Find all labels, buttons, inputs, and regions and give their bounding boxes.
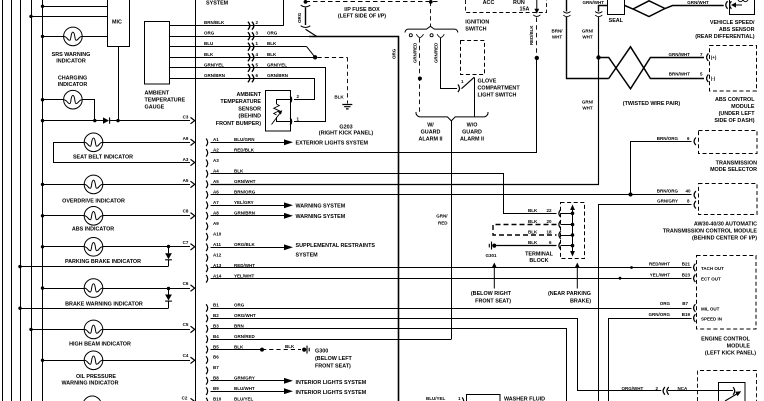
svg-text:B3: B3 (213, 324, 219, 329)
wire A4 BLK to terminal block (211, 174, 557, 214)
pin A10 (206, 233, 208, 241)
sensor symbol inside NCA box (719, 383, 746, 401)
svg-text:BLK: BLK (234, 169, 244, 174)
svg-text:WHT: WHT (582, 105, 592, 110)
wire ORG main feed (thick) (309, 37, 399, 401)
svg-text:A7: A7 (213, 200, 219, 205)
svg-text:GRN/GRY: GRN/GRY (234, 376, 255, 381)
svg-text:SIDE OF DASH): SIDE OF DASH) (714, 118, 754, 124)
connector GRN/RED 2 (437, 34, 444, 37)
svg-text:C4: C4 (183, 353, 189, 358)
svg-text:ORG/WHT: ORG/WHT (622, 386, 644, 391)
connector GRN/RED 1 (416, 34, 423, 37)
svg-text:BLOCK: BLOCK (529, 258, 548, 264)
ignition switch box (466, 0, 547, 13)
svg-text:TERMINAL: TERMINAL (525, 252, 554, 258)
wire BLK 20 dashed loop (493, 225, 557, 236)
svg-text:A4: A4 (213, 169, 219, 174)
svg-text:G301: G301 (485, 253, 497, 258)
svg-text:BRN/BLK: BRN/BLK (204, 20, 225, 25)
pin BRN/ORG 40 (694, 191, 696, 199)
bracket alternatives merge (416, 112, 488, 121)
svg-text:TACH OUT: TACH OUT (701, 266, 724, 271)
switch washer fluid level (467, 395, 501, 401)
wire B5 BLK to G300 (211, 349, 263, 351)
svg-text:YEL/GRY: YEL/GRY (234, 200, 254, 205)
svg-text:ORG/BLK: ORG/BLK (234, 242, 255, 247)
pin A11 (206, 244, 208, 252)
svg-text:I/P FUSE BOX: I/P FUSE BOX (344, 7, 380, 13)
pin A12 (206, 254, 208, 262)
svg-text:A3: A3 (213, 158, 219, 163)
svg-text:MODE SELECTOR: MODE SELECTOR (710, 167, 757, 173)
svg-text:TEMPERATURE: TEMPERATURE (145, 98, 186, 104)
svg-text:ORG: ORG (267, 31, 278, 36)
svg-text:20: 20 (547, 219, 553, 224)
svg-text:B10: B10 (213, 396, 222, 401)
lamp bottom indicator (clipped) (83, 396, 102, 401)
svg-text:SYSTEM: SYSTEM (206, 0, 229, 6)
svg-text:ORG: ORG (660, 301, 671, 306)
svg-text:A2: A2 (213, 148, 219, 153)
fuse terminal dot (304, 0, 308, 4)
svg-text:RED: RED (438, 220, 448, 225)
svg-text:HIGH BEAM INDICATOR: HIGH BEAM INDICATOR (69, 342, 131, 348)
pin B7 (206, 367, 208, 375)
svg-text:AMBIENT: AMBIENT (145, 91, 170, 97)
svg-text:ALARM II: ALARM II (419, 137, 443, 143)
svg-text:BRN/ORG: BRN/ORG (234, 190, 256, 195)
pin B3 (206, 325, 208, 333)
svg-text:BRN/: BRN/ (552, 28, 564, 33)
svg-text:A9: A9 (183, 136, 189, 141)
wire A8 GRN/BRN warning system (211, 215, 285, 217)
svg-text:C6: C6 (183, 281, 189, 286)
wire B8 GRN/GRY interior lights (211, 380, 285, 382)
wire bus3 to D2 (20, 266, 168, 268)
wire MIC output to C3 (118, 47, 120, 121)
svg-text:B9: B9 (213, 386, 219, 391)
svg-text:INDICATOR: INDICATOR (56, 59, 86, 65)
pin B4 (206, 335, 208, 343)
svg-text:A1: A1 (213, 137, 219, 142)
svg-text:PARKING BRAKE INDICATOR: PARKING BRAKE INDICATOR (65, 259, 141, 265)
switch blade fuse to ORG feed (306, 29, 318, 36)
pin A4 (206, 170, 208, 178)
pin A7 (206, 202, 208, 210)
wire bus-2 (11, 0, 13, 401)
svg-text:FRONT BUMPER): FRONT BUMPER) (216, 121, 261, 127)
svg-text:SEAT BELT INDICATOR: SEAT BELT INDICATOR (73, 154, 133, 160)
svg-text:WARNING INDICATOR: WARNING INDICATOR (62, 380, 119, 386)
svg-text:BRAKE WARNING INDICATOR: BRAKE WARNING INDICATOR (65, 302, 143, 308)
wire B3 BRN (211, 329, 567, 401)
svg-text:YEL/WHT: YEL/WHT (650, 272, 670, 277)
connector RED/BLK (533, 15, 540, 17)
switch blade BLU to BLK splice (307, 47, 315, 58)
module NCA (dashed) (698, 371, 757, 401)
svg-text:B19: B19 (682, 312, 691, 317)
svg-text:RED/WHT: RED/WHT (649, 262, 670, 267)
pin A5 (206, 181, 208, 189)
I/P fuse box bus (dashed) (306, 1, 441, 3)
svg-text:GRN/RED: GRN/RED (433, 43, 438, 63)
svg-text:ABS CONTROL: ABS CONTROL (715, 97, 755, 103)
ground G300 (302, 348, 306, 352)
svg-text:C2: C2 (182, 395, 188, 400)
svg-text:BLU/YEL: BLU/YEL (426, 396, 446, 401)
svg-text:GRN/YEL: GRN/YEL (267, 62, 287, 67)
wire MIC feed 2 (31, 16, 108, 18)
svg-text:(BEHIND: (BEHIND (239, 114, 262, 120)
svg-text:ORG: ORG (297, 12, 302, 23)
pin B1 (206, 304, 208, 312)
svg-text:WASHER FLUID: WASHER FLUID (504, 397, 545, 401)
svg-text:INTERIOR LIGHTS SYSTEM: INTERIOR LIGHTS SYSTEM (296, 390, 367, 396)
svg-text:BLU/YEL: BLU/YEL (234, 396, 254, 401)
lamp ABS indicator (43, 215, 85, 217)
wire RED/BLK dashed (536, 18, 538, 58)
svg-text:BLU: BLU (204, 41, 213, 46)
svg-text:WARNING SYSTEM: WARNING SYSTEM (296, 204, 346, 210)
wire GRN/ORG B19 (609, 319, 692, 401)
svg-text:BLK: BLK (528, 230, 538, 235)
terminal block box (561, 203, 585, 259)
svg-text:GRN/: GRN/ (436, 213, 448, 218)
svg-text:GUARD: GUARD (421, 130, 441, 136)
pin A9 (206, 223, 208, 231)
svg-text:YEL/WHT: YEL/WHT (234, 274, 254, 279)
wire GRN/RED merged drop (451, 121, 453, 339)
svg-text:15A: 15A (520, 6, 530, 12)
svg-text:(REAR DIFFERENTIAL): (REAR DIFFERENTIAL) (695, 34, 754, 40)
svg-text:(LEFT SIDE OF I/P): (LEFT SIDE OF I/P) (338, 14, 386, 20)
pin A8 (206, 212, 208, 220)
wire B9 BLU/WHT interior lights (211, 391, 285, 393)
instrument cluster right edge (195, 0, 197, 401)
svg-text:EXTERIOR LIGHTS SYSTEM: EXTERIOR LIGHTS SYSTEM (296, 141, 369, 147)
svg-text:BLK: BLK (234, 344, 244, 349)
pin A6 (206, 191, 208, 199)
svg-text:GRN/RED: GRN/RED (234, 334, 256, 339)
pin B8 (206, 377, 208, 385)
twisted wire pair (top) (625, 6, 724, 17)
svg-text:RED/BLK: RED/BLK (234, 148, 255, 153)
lamp SRS warning indicator (43, 36, 64, 38)
svg-text:SYSTEM: SYSTEM (296, 252, 319, 258)
ground G203 (342, 105, 352, 109)
diode D2 parking brake (167, 245, 170, 248)
svg-text:BRN/ORG: BRN/ORG (657, 188, 679, 193)
svg-text:GUARD: GUARD (462, 130, 482, 136)
pin B6 (206, 356, 208, 364)
wire BRN/ORG 6 (631, 142, 692, 195)
svg-text:22: 22 (547, 208, 553, 213)
svg-text:GRN/WHT: GRN/WHT (687, 0, 709, 5)
wire B2 ORG/WHT (211, 319, 662, 391)
svg-text:ABS INDICATOR: ABS INDICATOR (72, 227, 114, 233)
svg-text:GAUGE: GAUGE (145, 105, 165, 111)
svg-text:ORG: ORG (234, 303, 245, 308)
svg-text:(BEHIND CENTER OF I/P): (BEHIND CENTER OF I/P) (692, 236, 757, 242)
svg-text:BLK: BLK (267, 52, 277, 57)
svg-text:SEAL: SEAL (609, 18, 624, 24)
svg-text:ORG: ORG (204, 31, 215, 36)
seal (608, 0, 625, 15)
svg-text:A3: A3 (183, 157, 189, 162)
svg-text:BLK: BLK (285, 344, 295, 349)
svg-text:B7: B7 (682, 301, 688, 306)
svg-text:ORG: ORG (392, 48, 397, 59)
splice on YEL/WHT (619, 277, 622, 280)
svg-text:MODULE: MODULE (727, 344, 751, 350)
svg-text:A10: A10 (213, 232, 222, 237)
svg-text:CHARGING: CHARGING (58, 76, 87, 82)
lamp oil pressure warning indicator (43, 360, 85, 362)
diode D3 brake warning (167, 287, 170, 290)
pin B21 TACH OUT (694, 264, 696, 272)
arrow to G301 location note (493, 267, 495, 289)
svg-text:BRAKE): BRAKE) (570, 298, 591, 304)
sensor pin 2 (290, 96, 292, 104)
svg-text:(LEFT KICK PANEL): (LEFT KICK PANEL) (705, 351, 756, 357)
splice RED/BLK (535, 56, 539, 60)
pin B19 SPEED IN (694, 314, 696, 322)
svg-text:A6: A6 (213, 190, 219, 195)
svg-text:(RIGHT KICK PANEL): (RIGHT KICK PANEL) (319, 131, 374, 137)
ground G301 (492, 244, 496, 248)
splice on RED/WHT (630, 266, 633, 269)
svg-text:A11: A11 (213, 242, 222, 247)
svg-text:MODULE: MODULE (731, 104, 755, 110)
svg-text:B1: B1 (213, 303, 219, 308)
svg-text:GRN/YEL: GRN/YEL (204, 62, 224, 67)
svg-text:ENGINE CONTROL: ENGINE CONTROL (701, 337, 751, 343)
svg-text:B5: B5 (213, 344, 219, 349)
pin BLK 18 (559, 231, 561, 239)
lamp seat belt indicator (54, 143, 191, 163)
pin B5 (206, 346, 208, 354)
svg-text:C5: C5 (183, 322, 189, 327)
pin A13 (206, 265, 208, 273)
wire bus3 to D3 (20, 308, 168, 310)
svg-text:INDICATOR: INDICATOR (58, 82, 88, 88)
arrow to terminal block location note (576, 267, 578, 289)
svg-text:G300: G300 (315, 349, 328, 355)
module ECM (697, 256, 757, 330)
wire B4 GRN/RED (211, 339, 452, 341)
wire BLK dashed to G203 (318, 57, 348, 59)
svg-text:GRN/WHT: GRN/WHT (234, 179, 256, 184)
wire GRN/WHT vertical bus (599, 6, 608, 12)
svg-text:ORG/WHT: ORG/WHT (234, 313, 256, 318)
svg-text:INTERIOR LIGHTS SYSTEM: INTERIOR LIGHTS SYSTEM (296, 380, 367, 386)
pin B23 ECT OUT (694, 274, 696, 282)
svg-text:RED/BLK: RED/BLK (529, 25, 534, 45)
wire A1 BLU/GRN exterior lights (211, 142, 285, 144)
wire BLK 6 from G301 (497, 245, 557, 247)
splice GRN/WHT to twisted pair (596, 55, 600, 59)
svg-text:W/O: W/O (467, 123, 478, 129)
svg-text:LIGHT SWITCH: LIGHT SWITCH (478, 93, 517, 99)
svg-text:BLK: BLK (528, 240, 538, 245)
svg-text:ECT OUT: ECT OUT (701, 277, 721, 282)
sensor ambient temperature (266, 91, 291, 132)
svg-text:SWITCH: SWITCH (465, 26, 486, 32)
svg-text:(NEAR PARKING: (NEAR PARKING (548, 291, 591, 297)
svg-text:BLK: BLK (204, 52, 214, 57)
pin A2 (206, 149, 208, 157)
svg-text:40: 40 (685, 188, 691, 193)
svg-text:(UNDER LEFT: (UNDER LEFT (719, 111, 756, 117)
svg-text:TRANSMISSION: TRANSMISSION (716, 160, 757, 166)
pin BLK 20 (559, 221, 561, 229)
svg-text:GRN/: GRN/ (582, 28, 594, 33)
lamp overdrive indicator (43, 184, 85, 186)
selector transmission mode (694, 138, 696, 146)
svg-text:WHT: WHT (582, 34, 592, 39)
svg-text:MIC: MIC (112, 20, 122, 26)
svg-text:RUN: RUN (513, 0, 525, 6)
svg-text:B2: B2 (213, 313, 219, 318)
svg-text:WARNING SYSTEM: WARNING SYSTEM (296, 214, 346, 220)
svg-text:AW30-40/30 AUTOMATIC: AW30-40/30 AUTOMATIC (694, 222, 757, 228)
svg-text:GRN/BRN: GRN/BRN (267, 73, 288, 78)
svg-text:B8: B8 (213, 376, 219, 381)
svg-text:OVERDRIVE INDICATOR: OVERDRIVE INDICATOR (62, 199, 125, 205)
glove compartment light switch (461, 41, 485, 75)
svg-text:GRN/RED: GRN/RED (413, 43, 418, 63)
svg-text:18: 18 (547, 230, 553, 235)
pin BLK 6 (559, 242, 561, 250)
splice S/BLK (313, 55, 317, 59)
ABS control module (707, 53, 709, 61)
svg-text:SPEED IN: SPEED IN (701, 317, 722, 322)
svg-text:B4: B4 (213, 334, 219, 339)
svg-text:C7: C7 (183, 240, 189, 245)
pin BLK 22 (559, 210, 561, 218)
svg-text:GRN/WHT: GRN/WHT (583, 0, 605, 5)
svg-text:GRN/BRN: GRN/BRN (204, 73, 225, 78)
wire bus-1 (2, 0, 4, 401)
svg-text:GLOVE: GLOVE (478, 79, 497, 85)
diode D1 charging (43, 120, 104, 122)
wire GRN/RED dashed (w/ guard alarm) (419, 38, 421, 112)
svg-text:A5: A5 (213, 179, 219, 184)
connector vehicle speed sensor (726, 1, 728, 9)
svg-text:GRN/: GRN/ (582, 99, 594, 104)
svg-text:B7: B7 (213, 365, 219, 370)
pin B10 (206, 398, 208, 401)
svg-text:BLK: BLK (528, 208, 538, 213)
svg-text:A12: A12 (213, 253, 222, 258)
svg-text:BLU/WHT: BLU/WHT (234, 386, 255, 391)
wire GRN/GRY 8 (599, 205, 692, 401)
svg-text:GRN/GRY: GRN/GRY (657, 199, 678, 204)
brace alternative wiring (405, 26, 458, 32)
svg-text:A9: A9 (213, 221, 219, 226)
svg-text:AMBIENT: AMBIENT (236, 92, 261, 98)
svg-text:GRN/ORG: GRN/ORG (648, 312, 670, 317)
wire B1 ORG to ECM B7 (211, 308, 692, 310)
svg-text:TEMPERATURE: TEMPERATURE (220, 99, 261, 105)
pin A1 (206, 139, 208, 147)
module AW30-40/30 TCM (699, 184, 758, 215)
svg-text:FRONT SEAT): FRONT SEAT) (315, 364, 351, 370)
wire dashed fusebox drop to brace (430, 2, 432, 26)
wire BRN/WHT vertical (566, 0, 568, 12)
wire A13 RED/WHT to ECM B21 (211, 267, 692, 269)
pin A14 (206, 275, 208, 283)
lamp high beam indicator (31, 329, 84, 331)
pin B9 (206, 387, 208, 395)
lamp brake warning indicator (43, 288, 85, 290)
sensor vehicle speed/ABS (730, 0, 755, 15)
svg-text:(BELOW LEFT: (BELOW LEFT (315, 356, 353, 362)
svg-text:BLU/GRN: BLU/GRN (234, 137, 255, 142)
twisted wire pair (to ABS module) (599, 58, 705, 89)
svg-text:WHT: WHT (552, 34, 562, 39)
sensor pin 1 (290, 118, 292, 126)
pin B2 (206, 315, 208, 323)
wire A14 YEL/WHT to ECM B23 (211, 278, 692, 280)
svg-text:A5: A5 (183, 178, 189, 183)
svg-text:BRN/WHT: BRN/WHT (669, 71, 690, 76)
wire RED/BLK to cluster A2 (211, 58, 537, 153)
wire ORG fuse drop (301, 5, 311, 7)
svg-text:W/: W/ (427, 123, 434, 129)
gauge ambient temperature (145, 22, 170, 85)
svg-text:A8: A8 (213, 211, 219, 216)
svg-text:SUPPLEMENTAL RESTRAINTS: SUPPLEMENTAL RESTRAINTS (296, 243, 376, 249)
svg-text:B6: B6 (213, 355, 219, 360)
svg-text:VEHICLE SPEED/: VEHICLE SPEED/ (710, 20, 755, 26)
wire A11 ORG/BLK SRS (211, 247, 285, 249)
wire bus-5 (42, 0, 44, 401)
pin B7 MIL OUT (694, 304, 696, 312)
svg-text:BRN/ORG: BRN/ORG (657, 136, 679, 141)
svg-text:C3: C3 (183, 115, 189, 120)
svg-text:B21: B21 (682, 262, 691, 267)
svg-text:B23: B23 (682, 272, 691, 277)
wire MIC feed 1 (43, 6, 108, 8)
svg-text:TRANSMISSION CONTROL MODULE: TRANSMISSION CONTROL MODULE (663, 229, 758, 235)
svg-text:(TWISTED WIRE PAIR): (TWISTED WIRE PAIR) (623, 101, 681, 107)
wire A6 BRN/ORG (211, 194, 692, 196)
svg-text:IGNITION: IGNITION (465, 19, 489, 25)
svg-text:BLK: BLK (267, 41, 277, 46)
pin A3 (206, 160, 208, 168)
svg-text:ACC: ACC (483, 0, 495, 6)
fuse RUN 15A arrow (536, 0, 538, 10)
svg-text:(-): (-) (711, 76, 716, 81)
svg-text:BRN: BRN (234, 324, 244, 329)
svg-text:FRONT SEAT): FRONT SEAT) (475, 298, 511, 304)
wire bus-3 (20, 0, 22, 401)
svg-text:GRN/WHT: GRN/WHT (669, 52, 691, 57)
svg-text:GRN/BRN: GRN/BRN (234, 211, 255, 216)
svg-text:SENSOR: SENSOR (238, 106, 261, 112)
svg-text:(+): (+) (711, 55, 717, 60)
wire A7 YEL/GRY warning system (211, 205, 285, 207)
svg-text:ALARM II: ALARM II (460, 137, 484, 143)
wire GRN/RED solid (w/o guard alarm) (441, 38, 458, 89)
svg-text:A14: A14 (213, 274, 222, 279)
lamp parking brake indicator (43, 246, 85, 248)
svg-text:COMPARTMENT: COMPARTMENT (478, 86, 521, 92)
svg-text:SRS WARNING: SRS WARNING (52, 52, 91, 58)
svg-text:BLK: BLK (334, 95, 344, 100)
